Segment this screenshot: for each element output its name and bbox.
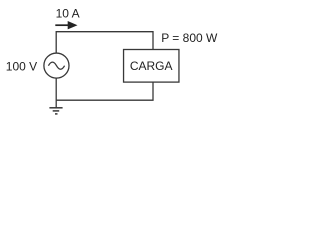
svg-text:10 A: 10 A bbox=[56, 6, 80, 20]
current direction arrow bbox=[55, 21, 77, 29]
svg-text:P = 800 W: P = 800 W bbox=[161, 31, 218, 45]
svg-text:100 V: 100 V bbox=[6, 60, 37, 74]
load box CARGA bbox=[124, 50, 179, 83]
wire: load bottom to ground rail bbox=[56, 82, 153, 100]
wire: source bottom down to ground bbox=[55, 78, 57, 108]
svg-text:CARGA: CARGA bbox=[130, 59, 173, 73]
ground bbox=[49, 108, 62, 114]
AC source V1 bbox=[44, 53, 69, 78]
wire: source top to load top bbox=[56, 32, 153, 55]
